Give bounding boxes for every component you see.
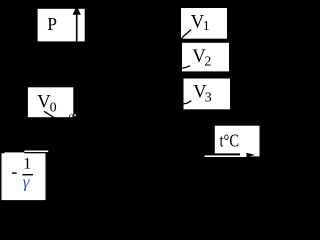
P-axis arrow <box>73 6 81 42</box>
t-axis line left segment low part <box>5 152 25 154</box>
t-axis line left segment high part <box>24 151 48 153</box>
svg-text:a: a <box>69 110 75 122</box>
svg-text:3: 3 <box>205 91 212 106</box>
label box P <box>38 9 85 42</box>
label box V1 <box>181 8 227 39</box>
label box V2 <box>182 43 229 72</box>
svg-text:0: 0 <box>50 101 57 116</box>
svg-text:1: 1 <box>23 155 31 172</box>
svg-text:1: 1 <box>203 19 210 34</box>
svg-text:2: 2 <box>204 54 211 69</box>
t-axis arrow white backing patch <box>240 153 260 157</box>
leader line V1 <box>181 30 191 39</box>
label box -1/gamma <box>2 153 46 200</box>
svg-text:t°C: t°C <box>220 131 240 151</box>
leader line V3 <box>183 101 191 104</box>
leader line V0 <box>44 111 55 118</box>
svg-text:P: P <box>47 14 57 34</box>
t-axis line right segment <box>205 155 247 157</box>
t-axis arrowhead <box>246 153 255 157</box>
label box V3 <box>184 79 231 110</box>
label box V0 <box>28 87 73 117</box>
label box tC <box>215 126 260 154</box>
leader line V2 <box>182 66 190 69</box>
point label a <box>69 110 76 122</box>
